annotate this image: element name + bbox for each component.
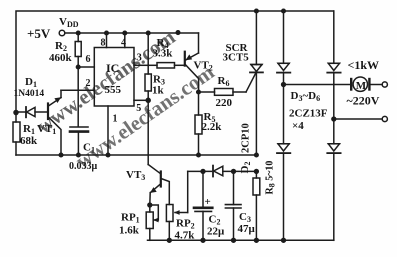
- label C1: [83, 142, 95, 155]
- svg-text:RP1: RP1: [121, 212, 140, 225]
- label R6: [218, 75, 230, 88]
- node dot C3/bottom bus: [232, 238, 236, 242]
- label 220: [216, 97, 233, 109]
- label 47u: [238, 223, 256, 235]
- svg-text:3: 3: [137, 53, 142, 64]
- label RP1: [121, 212, 140, 225]
- potentiometer RP2: [166, 205, 187, 241]
- label 22u: [207, 226, 225, 238]
- svg-text:47μ: 47μ: [238, 223, 256, 235]
- svg-text:0.033μ: 0.033μ: [69, 161, 98, 172]
- resistor R5: [195, 92, 202, 155]
- label D1: [25, 76, 37, 89]
- svg-text:22μ: 22μ: [207, 226, 225, 238]
- svg-text:VT3: VT3: [126, 169, 145, 182]
- watermark www.elecfans.com row 2: [71, 59, 219, 173]
- svg-text:+: +: [205, 196, 211, 208]
- label VT1: [37, 123, 56, 136]
- node dot SCR cathode/ground bus: [255, 153, 259, 157]
- svg-text:2CP10: 2CP10: [241, 123, 252, 153]
- terminal AC upper: [382, 82, 387, 87]
- svg-text:VT2: VT2: [194, 60, 213, 73]
- label 0.033u: [69, 161, 98, 172]
- svg-text:+5V: +5V: [27, 26, 51, 41]
- watermark www.elecfans.com row 1: [32, 24, 180, 138]
- label R5: [204, 111, 216, 124]
- node dot VDD/R2: [76, 31, 80, 35]
- svg-text:M: M: [356, 80, 367, 92]
- svg-text:2.2k: 2.2k: [202, 121, 223, 133]
- node dot RP2/bottom bus: [167, 238, 171, 242]
- svg-text:1.6k: 1.6k: [119, 225, 140, 237]
- svg-text:1: 1: [113, 114, 118, 125]
- label <1kW: [348, 58, 380, 72]
- label D2 (rotated): [239, 162, 252, 174]
- wire ground bus y=155: [16, 154, 256, 156]
- wire bottom bus y=240.3: [148, 239, 334, 241]
- node dot pin1/ground bus: [106, 153, 110, 157]
- wire RP2 wiper riser: [187, 171, 189, 212]
- node dot SCR anode top bus: [255, 9, 259, 13]
- transistor VT3: [148, 100, 169, 205]
- node dot stray: [176, 31, 180, 35]
- svg-text:68k: 68k: [20, 135, 38, 147]
- label pin 3: [137, 53, 142, 64]
- svg-text:D3~D6: D3~D6: [291, 90, 321, 103]
- label R8 5~10 (rotated): [265, 161, 277, 195]
- label 3.3k: [153, 48, 174, 60]
- resistor R2: [75, 33, 81, 126]
- label x4: [292, 120, 304, 132]
- label RP2: [176, 218, 195, 231]
- svg-text:2: 2: [86, 78, 91, 89]
- label IC: [106, 61, 119, 75]
- label 1k: [152, 85, 165, 97]
- wire IC pin 2: [61, 89, 94, 91]
- label R3: [153, 74, 165, 87]
- node dot D2/R8: [255, 170, 259, 174]
- node dot C1/ground bus: [77, 153, 81, 157]
- node dot R5/ground bus: [197, 153, 201, 157]
- label C3: [239, 211, 251, 224]
- label VT3: [126, 169, 145, 182]
- node dot C2 top: [201, 170, 205, 174]
- node dot VT2 collector/R6/R5: [197, 90, 201, 94]
- wire IC pin 6: [78, 66, 94, 68]
- wire pin 4: [124, 33, 126, 48]
- label 3CT5: [223, 52, 250, 64]
- svg-text:D1: D1: [25, 76, 37, 89]
- node dot D1/left border: [14, 111, 18, 115]
- thyristor SCR 3CT5: [246, 11, 263, 155]
- wire pin 8: [106, 33, 108, 48]
- potentiometer RP1: [146, 205, 158, 240]
- label 2CZ13F: [289, 108, 328, 120]
- wire AC lower y=119: [334, 118, 382, 120]
- label R4: [157, 37, 169, 50]
- node dot pin6/R2: [76, 65, 80, 69]
- node dot VT3 emitter/RP1: [148, 203, 152, 207]
- transistor VT1: [48, 90, 61, 155]
- svg-text:1k: 1k: [152, 85, 165, 97]
- svg-text:4: 4: [121, 38, 126, 49]
- svg-text:~220V: ~220V: [347, 94, 380, 108]
- resistor R4: [148, 63, 184, 68]
- capacitor C2 electrolytic: [194, 171, 212, 240]
- node dot pin8: [105, 31, 109, 35]
- label 1.6k: [119, 225, 140, 237]
- label 2CP10 (rotated): [241, 123, 252, 153]
- label 1N4014: [14, 89, 45, 99]
- capacitor C1: [70, 127, 88, 155]
- node dot pin3 riser: [146, 31, 150, 35]
- capacitor C3: [225, 171, 241, 240]
- label C2 plus: [205, 196, 211, 208]
- node dot AC lower/right leg: [332, 117, 336, 121]
- node dot VT1 emitter/ground bus: [59, 153, 63, 157]
- wire motor line y=84.5: [284, 84, 351, 86]
- label D3~D6: [291, 90, 321, 103]
- svg-text:555: 555: [105, 84, 122, 96]
- node dot bridge left mid: [282, 83, 286, 87]
- label pin 8: [101, 38, 106, 49]
- svg-text:220: 220: [216, 97, 233, 109]
- svg-text:460k: 460k: [49, 52, 73, 64]
- svg-text:3CT5: 3CT5: [223, 52, 250, 64]
- svg-text:2CZ13F: 2CZ13F: [289, 108, 328, 120]
- diode D5 (lower left leg): [277, 85, 290, 241]
- label pin 6: [86, 54, 91, 65]
- svg-text:<1kW: <1kW: [348, 58, 380, 72]
- svg-text:R6: R6: [218, 75, 230, 88]
- node dot C3 top: [232, 170, 236, 174]
- label R2: [55, 40, 67, 53]
- wire pin3 riser from VDD: [147, 33, 149, 65]
- diode D6 (lower right leg): [327, 144, 340, 241]
- wire VDD rail y=33: [65, 32, 199, 34]
- node dot C2/bottom bus: [201, 238, 205, 242]
- label pin 1: [113, 114, 118, 125]
- label pin 4: [121, 38, 126, 49]
- label pin 2: [86, 78, 91, 89]
- svg-text:6: 6: [86, 54, 91, 65]
- wire pin 5: [134, 99, 148, 101]
- diode D4 (upper right leg): [327, 11, 340, 144]
- svg-text:1N4014: 1N4014: [14, 89, 45, 99]
- label C2: [209, 214, 221, 227]
- wire timing node y=171.4: [188, 170, 212, 172]
- motor M: [351, 77, 382, 91]
- diode D1: [16, 107, 48, 117]
- svg-text:R8 5~10: R8 5~10: [265, 161, 277, 195]
- terminal AC lower: [382, 116, 387, 121]
- resistor R8: [253, 171, 260, 240]
- node dot pin4: [123, 31, 127, 35]
- label 460k: [49, 52, 73, 64]
- diode D3 (upper left leg): [277, 11, 290, 85]
- wire top border bus: [16, 11, 334, 122]
- wire pin 3: [134, 64, 148, 66]
- svg-text:IC: IC: [106, 61, 119, 75]
- label VT2: [194, 60, 213, 73]
- svg-text:×4: ×4: [292, 120, 304, 132]
- wire pin 1: [107, 106, 109, 155]
- node dot left leg/bottom bus: [282, 238, 286, 242]
- svg-text:5: 5: [136, 103, 141, 114]
- wire left border lower segment: [15, 142, 17, 155]
- svg-text:8: 8: [101, 38, 106, 49]
- resistor R1 (body on left border): [13, 122, 20, 142]
- terminal +5V input circle: [59, 30, 65, 36]
- label +5V: [27, 26, 51, 41]
- svg-text:3.3k: 3.3k: [153, 48, 174, 60]
- svg-text:D2: D2: [239, 162, 252, 174]
- label M: [356, 80, 367, 92]
- label R1: [23, 123, 35, 136]
- label 4.7k: [175, 230, 196, 242]
- label ~220V: [347, 94, 380, 108]
- transistor VT2 (PNP): [185, 33, 199, 92]
- label SCR: [226, 42, 249, 54]
- op-amp/timer IC 555 box: [94, 48, 134, 107]
- node dot D3 top bus: [282, 9, 286, 13]
- svg-text:VDD: VDD: [59, 16, 79, 29]
- resistor R3: [145, 65, 151, 100]
- label 555: [105, 84, 122, 96]
- resistor R6: [199, 89, 247, 96]
- label 68k: [20, 135, 38, 147]
- node dot pin5/R3: [146, 98, 150, 102]
- diode D2: [213, 166, 256, 177]
- node dot R8/bottom bus: [255, 238, 259, 242]
- label VDD: [59, 16, 79, 29]
- label pin 5: [136, 103, 141, 114]
- label 2.2k: [202, 121, 223, 133]
